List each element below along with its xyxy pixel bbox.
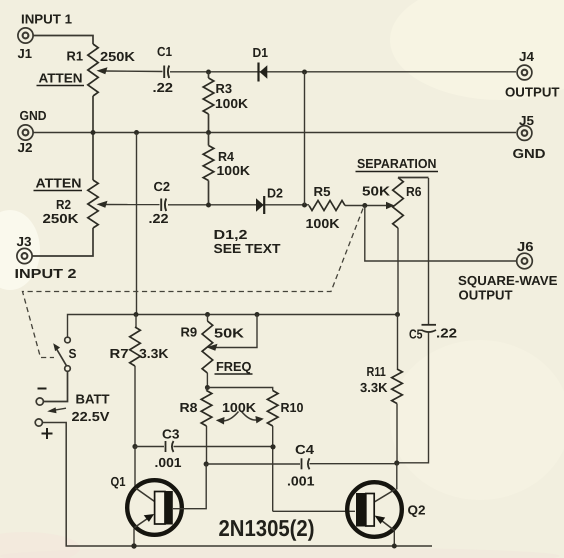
svg-text:J1: J1 <box>18 46 33 61</box>
svg-text:OUTPUT: OUTPUT <box>505 85 560 100</box>
wire line B (C4 line) <box>206 463 397 465</box>
svg-text:.22: .22 <box>436 326 457 341</box>
node: Q1 emitter on bottom rail <box>131 543 136 548</box>
node: long vertical on GND rail <box>134 130 139 135</box>
node: line A end at R10 column <box>270 444 275 449</box>
svg-text:22.5V: 22.5V <box>72 409 110 424</box>
R6 wiper arrow <box>386 202 395 209</box>
node: R5/R6-wiper/J6 junction <box>362 203 367 208</box>
capacitor C2 .22 <box>161 199 166 212</box>
capacitor C3 .001 <box>166 441 174 452</box>
svg-text:R9: R9 <box>181 325 198 340</box>
wire Q2 base lead <box>396 463 398 490</box>
svg-text:100K: 100K <box>306 216 341 231</box>
svg-text:100K: 100K <box>215 96 249 111</box>
transistor Q2 2N1305 <box>347 482 402 537</box>
label SEPARATION (R6) <box>356 156 439 172</box>
resistor R7 3.3K <box>130 315 141 447</box>
node: R7 column on rail <box>134 312 139 317</box>
svg-text:BATT: BATT <box>76 392 110 407</box>
svg-text:.001: .001 <box>155 455 182 470</box>
svg-text:R2: R2 <box>56 197 71 212</box>
diode D2 <box>256 196 264 214</box>
svg-text:100K: 100K <box>222 400 257 415</box>
node: Q2 emitter on bottom rail <box>392 544 397 549</box>
svg-text:C2: C2 <box>154 179 171 194</box>
wire R6 top to C5 column <box>398 177 429 179</box>
svg-text:R7: R7 <box>110 346 129 361</box>
svg-text:ATTEN: ATTEN <box>39 71 83 86</box>
svg-text:J5: J5 <box>519 113 534 128</box>
svg-text:INPUT 2: INPUT 2 <box>15 266 77 281</box>
resistor R11 3.3K <box>392 315 403 464</box>
svg-text:R10: R10 <box>281 400 304 415</box>
node: R9 column on rail <box>205 312 210 317</box>
R2 wiper arrow <box>97 201 160 208</box>
jack J5 GND <box>517 126 532 141</box>
node: R6/R11 column on rail <box>395 312 400 317</box>
svg-text:S: S <box>69 346 77 361</box>
battery minus mark <box>38 388 47 390</box>
node: R9 bottom / R8 / R10 tie <box>205 385 210 390</box>
svg-text:FREQ: FREQ <box>216 359 252 374</box>
battery polarity arrow <box>47 407 66 413</box>
svg-text:GND: GND <box>20 108 47 123</box>
wire Q1 base lead <box>134 447 136 487</box>
node: C1/R3 junction <box>206 70 211 75</box>
potentiometer R2 250K <box>88 180 98 228</box>
svg-text:SEPARATION: SEPARATION <box>357 156 437 171</box>
svg-text:R3: R3 <box>216 81 233 96</box>
svg-text:50K: 50K <box>214 326 245 341</box>
transistor Q1 2N1305 <box>127 480 182 535</box>
svg-text:R5: R5 <box>314 184 331 199</box>
svg-text:ATTEN: ATTEN <box>36 176 82 191</box>
resistor R10 100K (ganged pot) <box>267 391 278 512</box>
svg-text:J2: J2 <box>18 140 33 155</box>
svg-text:D2: D2 <box>267 186 283 201</box>
svg-text:R11: R11 <box>367 364 386 379</box>
svg-text:SEE TEXT: SEE TEXT <box>214 241 281 256</box>
node: R9 wiper return on rail <box>255 312 260 317</box>
wire line A (C3 line) <box>135 446 273 448</box>
svg-text:R8: R8 <box>180 400 198 415</box>
battery BATT 22.5V minus terminal <box>36 398 43 405</box>
wire J6 line <box>365 206 516 262</box>
jack J1 INPUT 1 <box>18 28 33 43</box>
node: R8 bottom / Q1 collector / C4 line <box>204 461 209 466</box>
node: D2/vertical junction <box>302 203 307 208</box>
wire Q2 emitter lead to bottom rail <box>393 531 395 547</box>
node: R3/R4 junction on GND rail <box>206 130 211 135</box>
svg-text:C1: C1 <box>157 44 172 59</box>
svg-text:SQUARE-WAVE: SQUARE-WAVE <box>458 273 558 288</box>
node: R11/C5/Q2 base tie <box>394 460 399 465</box>
svg-text:3.3K: 3.3K <box>360 380 388 395</box>
ganged wiper arrows for R8/R10 <box>216 412 264 425</box>
label ATTEN (R2) <box>34 176 83 191</box>
node: C3 left / R7 column <box>132 444 137 449</box>
potentiometer R6 50K <box>393 178 404 229</box>
node: D1/J4 branch junction <box>302 70 307 75</box>
jack J2 GND <box>18 125 33 140</box>
wire lower supply rail <box>68 315 398 338</box>
resistor R8 100K (ganged pot) <box>201 388 212 465</box>
svg-text:R6: R6 <box>406 184 422 199</box>
svg-text:J3: J3 <box>17 234 32 249</box>
svg-text:INPUT 1: INPUT 1 <box>21 12 72 27</box>
svg-text:.22: .22 <box>149 211 169 226</box>
switch S <box>53 337 70 371</box>
svg-text:R1: R1 <box>67 49 84 64</box>
svg-text:C5: C5 <box>409 327 423 342</box>
diode D1 <box>259 63 268 82</box>
wire R9 bottom to R10 top <box>207 388 272 391</box>
wire C5 bottom to R11 node <box>397 333 429 463</box>
label FREQ (R9) <box>215 359 253 374</box>
jack J6 SQUARE-WAVE OUTPUT <box>517 253 533 269</box>
wire C1 to J4 through D1 <box>170 71 516 73</box>
potentiometer R1 250K <box>88 44 98 96</box>
wire J1 to R1 top <box>33 36 93 45</box>
wire Q1 collector to R8 node <box>173 464 206 509</box>
svg-text:250K: 250K <box>43 211 80 226</box>
resistor R5 100K <box>309 201 345 211</box>
battery plus mark <box>42 428 53 439</box>
R1 wiper arrow <box>97 67 163 74</box>
svg-text:C4: C4 <box>295 442 315 457</box>
wire GND rail J2 to J5 <box>33 132 516 134</box>
battery plus terminal <box>35 419 42 426</box>
svg-text:100K: 100K <box>217 163 251 178</box>
node: R4/D2 junction <box>206 203 211 208</box>
svg-text:C3: C3 <box>162 427 180 442</box>
capacitor C1 .22 <box>164 66 169 79</box>
wire C5 column top <box>428 178 430 325</box>
svg-text:R4: R4 <box>218 149 235 164</box>
jack J3 INPUT 2 <box>17 248 32 263</box>
label ATTEN (R1) <box>37 71 85 86</box>
note D1,2 SEE TEXT <box>214 227 281 256</box>
wire R6 bottom to lower rail <box>397 228 399 315</box>
resistor R9 50K FREQ <box>202 315 213 388</box>
svg-text:Q1: Q1 <box>111 474 126 489</box>
svg-text:.001: .001 <box>287 474 315 489</box>
svg-text:2N1305(2): 2N1305(2) <box>219 515 315 541</box>
wire battery plus down left edge to bottom rail <box>42 423 432 547</box>
wire R2 bottom to J3 <box>32 228 93 256</box>
wire R1 bottom to R2 top <box>92 96 94 180</box>
svg-text:J4: J4 <box>519 49 535 64</box>
dashed link R6 wiper to switch <box>23 209 364 358</box>
wire switch to battery minus <box>44 371 68 401</box>
resistor R4 100K <box>203 133 214 206</box>
svg-text:GND: GND <box>513 146 546 161</box>
svg-text:D1,2: D1,2 <box>214 227 248 242</box>
svg-text:.22: .22 <box>153 80 174 95</box>
capacitor C4 .001 <box>302 458 310 469</box>
wire Q2 collector from R10 column <box>273 510 355 512</box>
wire C2 to R5 through D2 <box>168 204 309 206</box>
svg-text:Q2: Q2 <box>408 503 426 518</box>
wire Q1 emitter lead to bottom rail <box>133 529 135 547</box>
svg-text:250K: 250K <box>100 49 136 64</box>
R9 wiper arrow loop to rail <box>207 315 258 351</box>
node: R1 column on GND rail <box>91 130 96 135</box>
wire from D1 branch down to D2 line <box>304 72 306 205</box>
svg-text:3.3K: 3.3K <box>139 346 169 361</box>
resistor R3 100K <box>203 72 214 133</box>
svg-text:OUTPUT: OUTPUT <box>459 288 513 303</box>
jack J4 OUTPUT <box>517 65 532 80</box>
svg-text:50K: 50K <box>362 184 391 199</box>
wire R5 to R6 wiper <box>345 205 387 207</box>
capacitor C5 .22 <box>422 325 437 332</box>
svg-text:J6: J6 <box>517 239 534 254</box>
svg-text:D1: D1 <box>253 45 269 60</box>
wire long vertical from GND rail to lower rail <box>136 133 138 315</box>
